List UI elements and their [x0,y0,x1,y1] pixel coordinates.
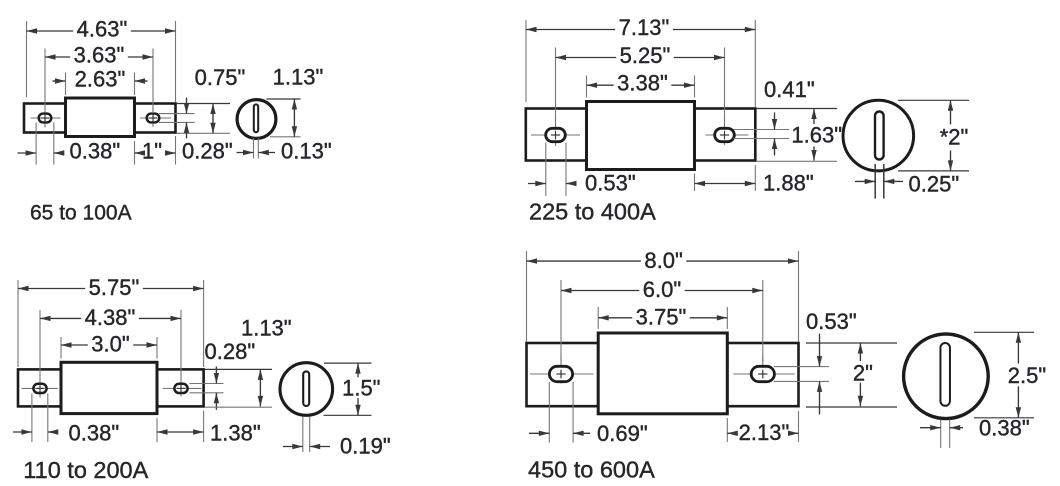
fuse F1 left terminal hole [31,117,61,119]
dimension F1 3.63" [45,56,70,58]
svg-text:7.13": 7.13" [619,15,670,40]
dimension F4 6.0" [561,290,639,292]
dimension F1 2.63" [53,80,66,82]
svg-text:3.63": 3.63" [74,42,125,67]
extension lines F4 2.5" [974,331,1034,333]
svg-text:2.13": 2.13" [739,420,790,445]
svg-text:1": 1" [142,138,162,163]
fuse F4 body [598,333,727,414]
svg-text:2": 2" [853,361,873,386]
fuse F3 left terminal hole [22,387,58,389]
fuse F3 right terminal hole [163,387,202,389]
fuse F4 terminal slot lines [774,366,829,368]
svg-text:5.75": 5.75" [89,275,140,300]
end view F1 circle [237,100,276,139]
end view F2 circle [843,100,914,171]
dimension F3 1.38" [157,431,204,433]
dimension F4 0.53" [819,334,821,367]
extension lines F1 4.63" [26,21,28,97]
fuse F1 right terminal hole [140,117,171,119]
extension lines F1 1" [134,141,136,165]
svg-text:1.63": 1.63" [791,122,842,147]
svg-text:1.38": 1.38" [210,421,261,446]
svg-text:0.53": 0.53" [806,309,857,334]
dimension F1 0.38" [18,152,37,154]
extension lines F2 0.25" [874,164,876,199]
dimension F2 0.25" [855,180,875,182]
end view F2 slot [875,112,884,160]
fuse F1 terminal slot lines [159,113,195,115]
svg-text:0.69": 0.69" [597,421,648,446]
dimension F4 3.75" [598,317,632,319]
svg-text:0.75": 0.75" [195,65,246,90]
fuse F3 left mounting tab [18,369,61,406]
end view F3 slot [303,371,309,406]
end view F1 slot [254,104,258,132]
dimension F2 7.13" [526,29,615,31]
extension lines F1 2.63" [65,73,67,96]
extension lines F1 0.38" [35,123,37,165]
extension lines F1 0.75" [177,103,231,105]
fuse F2 left mounting tab [526,109,587,161]
extension lines F2 1.63" [756,108,837,110]
svg-text:2.5": 2.5" [1008,363,1046,388]
fuse F4 right terminal hole [733,373,795,375]
fuse F2 body [587,102,695,170]
fuse F2 right terminal hole [706,134,749,136]
dimension F4 0.38" [920,427,941,429]
extension lines F1 0.13" [253,138,255,159]
extension lines F4 3.75" [597,307,599,329]
svg-text:0.38": 0.38" [979,416,1030,441]
extension lines F3 0.19" [302,417,304,453]
fuse F3 right mounting tab [157,369,204,406]
fuse F4 left mounting tab [527,343,599,406]
svg-text:0.41": 0.41" [764,77,815,102]
extension lines F1 3.63" [44,49,46,106]
svg-text:3.75": 3.75" [636,305,687,330]
dimension F2 0.41" [774,113,776,130]
dimension F2 *2" [950,100,952,124]
extension lines F1 1.13" [267,98,301,100]
end view F3 circle [280,363,333,416]
svg-text:4.63": 4.63" [77,16,128,41]
fuse F1 body [66,98,135,137]
extension lines F4 2.13" [726,418,728,442]
svg-text:1.5": 1.5" [342,376,380,401]
svg-text:3.38": 3.38" [617,71,668,96]
dimension F1 0.13" [237,152,254,154]
dimension F4 2" [859,343,861,361]
svg-text:1.13": 1.13" [241,316,292,341]
fuse F2 right mounting tab [695,109,756,161]
svg-text:0.28": 0.28" [205,339,256,364]
extension lines F3 1.13" [205,368,272,370]
extension lines F2 1.88" [694,174,696,192]
dimension F4 0.69" [529,432,549,434]
dimension F1 0.28" [186,98,188,114]
svg-text:450 to 600A: 450 to 600A [528,456,655,482]
extension lines F2 *2" [898,99,969,101]
dimension F4 2.5" [1017,332,1019,363]
svg-text:*2": *2" [940,125,969,150]
svg-text:0.38": 0.38" [69,421,120,446]
dimension F2 1.88" [695,183,756,185]
extension lines F3 4.38" [39,310,41,376]
fuse F4 left terminal hole [530,373,594,375]
dimension F3 1.5" [357,363,359,377]
extension lines F3 5.75" [17,280,19,367]
svg-text:6.0": 6.0" [643,277,681,302]
fuse F1 left mounting tab [24,104,66,133]
fuse F3 body [61,362,157,413]
dimension F3 0.28" [215,367,217,384]
dimension F3 0.19" [283,446,303,448]
extension lines F2 7.13" [525,20,527,102]
extension lines F3 1.38" [156,418,158,442]
dimension F3 1.13" [259,369,261,406]
dimension F2 1.63" [813,109,815,125]
end view F4 slot [940,343,950,406]
dimension F3 0.38" [13,431,32,433]
svg-text:110 to 200A: 110 to 200A [23,457,148,483]
extension lines F2 5.25" [555,48,557,127]
extension lines F4 6.0" [560,280,562,362]
svg-text:0.38": 0.38" [70,139,121,164]
dimension F1 4.63" [27,30,74,32]
fuse F3 terminal slot lines [190,383,224,385]
extension lines F4 0.38" [940,420,942,449]
svg-text:65 to 100A: 65 to 100A [30,201,132,224]
extension lines F3 1.5" [324,362,372,364]
dimension F4 8.0" [527,260,641,262]
extension lines F4 8.0" [526,251,528,342]
svg-text:3.0": 3.0" [91,332,129,357]
dimension F2 0.53" [528,183,546,185]
dimension F4 2.13" [727,432,735,434]
fuse F4 right mounting tab [727,343,798,406]
svg-text:0.13": 0.13" [281,139,332,164]
svg-text:4.38": 4.38" [85,305,136,330]
svg-text:1.88": 1.88" [763,171,814,196]
dimension F1 1.13" [293,99,295,137]
fuse F1 right mounting tab [135,104,176,133]
dimension F2 3.38" [587,84,614,86]
extension lines F2 0.53" [545,143,547,197]
extension lines F3 0.38" [31,394,33,443]
dimension F3 5.75" [18,288,85,290]
dimension F3 3.0" [61,344,88,346]
extension lines F3 3.0" [60,337,62,359]
dimension F2 5.25" [556,57,617,59]
extension lines F4 0.69" [548,382,550,443]
end view F4 circle [904,334,989,419]
svg-text:225 to 400A: 225 to 400A [529,198,656,224]
svg-text:2.63": 2.63" [75,66,126,91]
fuse F2 terminal slot lines [734,129,790,131]
svg-text:5.25": 5.25" [620,43,671,68]
svg-text:0.28": 0.28" [182,139,233,164]
svg-text:0.53": 0.53" [585,171,636,196]
extension lines F2 3.38" [586,76,588,98]
svg-text:1.13": 1.13" [273,65,324,90]
extension lines F4 2" [806,342,897,344]
dimension F3 4.38" [40,317,81,319]
svg-text:8.0": 8.0" [644,248,682,273]
dimension F1 1" [135,152,139,154]
svg-text:0.19": 0.19" [340,434,391,459]
dimension F1 0.75" [212,104,214,134]
fuse F2 left terminal hole [531,134,580,136]
svg-text:0.25": 0.25" [909,172,960,197]
